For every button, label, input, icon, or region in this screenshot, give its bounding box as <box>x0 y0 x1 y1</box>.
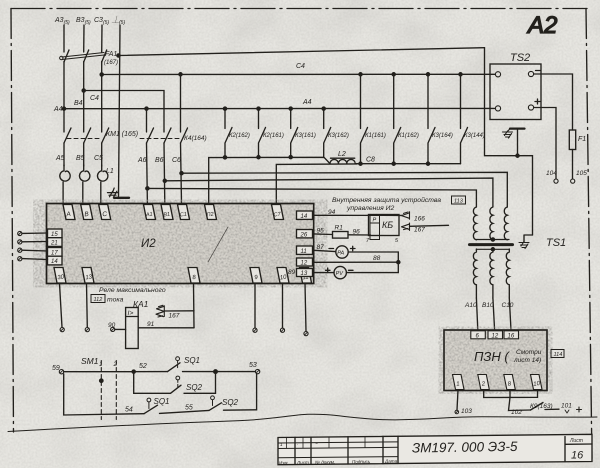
wire 89 label <box>288 269 296 276</box>
wire label A4 left <box>53 106 63 113</box>
TS1 secondary coil A <box>473 249 476 298</box>
wire phase B4 down to KM1 <box>83 62 85 133</box>
protection note text <box>332 196 441 212</box>
svg-text:А4: А4 <box>53 106 63 113</box>
contact K9(163) <box>531 403 560 411</box>
connector circle pin30 <box>60 328 64 332</box>
contactor K4 pole A <box>147 128 154 143</box>
transformer TS2 box <box>490 64 541 120</box>
fuse F1 <box>569 130 575 150</box>
switch SQ2 mid blade <box>171 385 182 393</box>
KB contact 166 arrow <box>402 212 410 219</box>
label C5 <box>94 155 103 162</box>
wire ground drop at TS2 <box>485 48 533 235</box>
chassis bar stem <box>517 129 519 156</box>
wire pin9 down <box>254 284 256 329</box>
svg-text:В6: В6 <box>155 157 164 164</box>
contactor K4 pole C <box>181 128 188 143</box>
wire label C10 <box>502 302 514 309</box>
svg-text:ТS1: ТS1 <box>546 237 566 249</box>
junction bus K3(164) <box>426 162 429 165</box>
wire A6 column from A4 bus <box>146 109 148 132</box>
svg-text:Дата: Дата <box>384 459 398 464</box>
SM1 bottom wire left <box>64 374 144 415</box>
junction A4 tap <box>62 107 65 110</box>
TS1 primary coil A <box>473 207 476 240</box>
contact K3(164) column <box>428 74 435 163</box>
TS1 secondary coil B <box>490 249 493 298</box>
svg-text:К4(164): К4(164) <box>184 135 207 142</box>
wire 88 label <box>373 255 381 262</box>
PZN label <box>474 349 542 364</box>
KA1 contact arrows <box>156 305 164 317</box>
connector circle pin10 <box>280 328 284 332</box>
svg-text:№ докум.: № докум. <box>315 460 335 465</box>
label K9(163) <box>530 403 553 410</box>
svg-text:Внутренняя защита устройства: Внутренняя защита устройства <box>332 196 441 204</box>
svg-text:112: 112 <box>94 297 103 303</box>
svg-text:14: 14 <box>301 214 308 220</box>
terminal 104 label <box>546 170 557 177</box>
wire left pin 14 <box>22 258 48 261</box>
junction bus K1(162) <box>392 162 395 165</box>
TS2 plus sign <box>535 99 540 104</box>
wire A4 bus to TS2 <box>64 107 495 109</box>
label A6 <box>137 157 147 164</box>
contact K2(162) column <box>225 109 232 158</box>
connector circle pin9 <box>253 328 257 332</box>
overcurrent note line1 <box>99 287 166 294</box>
wire A10 to PZN <box>476 298 477 330</box>
svg-text:16: 16 <box>508 334 515 340</box>
wire bracket to 102 <box>509 397 531 410</box>
wire 94 label <box>328 209 336 216</box>
KB coil P box <box>370 216 380 224</box>
junction bus K2(162) <box>223 156 226 159</box>
label 55 <box>185 405 193 412</box>
terminal 104 circle <box>554 179 558 183</box>
svg-text:(167): (167) <box>104 60 118 66</box>
PZN pin 12 <box>488 331 503 340</box>
SQ2 bottom label <box>222 398 239 407</box>
wire C6 column from C4 line <box>180 74 182 132</box>
plus sign PA <box>351 246 356 250</box>
frame right border <box>586 9 592 463</box>
wire left pin 17 <box>22 249 48 252</box>
PZN pin 1 <box>453 375 465 390</box>
svg-text:А6: А6 <box>137 157 147 164</box>
svg-text:В1: В1 <box>163 212 171 219</box>
wire A6 feed to TS1 <box>147 188 476 207</box>
title block row divider <box>278 442 398 458</box>
U2 pin A <box>63 205 75 220</box>
junction K3(164) top <box>426 73 429 76</box>
contactor K4 pole B <box>164 128 171 143</box>
wire B6 down to U2 pin B1 <box>163 143 166 204</box>
wire phase A4 down to KM1 <box>63 62 65 133</box>
svg-text:11: 11 <box>301 249 307 255</box>
wire label A10 <box>464 302 477 309</box>
label 54 <box>125 407 133 414</box>
circuit breaker FA1 pole A <box>64 50 69 62</box>
svg-text:89: 89 <box>288 269 296 276</box>
svg-text:А4: А4 <box>302 99 312 106</box>
wire 95 from pin26 <box>314 233 333 236</box>
svg-text:55: 55 <box>185 405 193 412</box>
relay KA1 label <box>133 299 149 309</box>
junction bus K2(161) <box>257 156 260 159</box>
junction K3(162) top <box>322 107 325 110</box>
wire B10 to PZN <box>493 298 495 330</box>
wire to connector 53 <box>216 371 256 373</box>
svg-text:167: 167 <box>414 227 425 234</box>
node C3(5) label <box>94 17 109 26</box>
KB contact tail <box>410 225 449 226</box>
svg-text:А10: А10 <box>464 302 477 309</box>
F1 label <box>578 136 586 143</box>
node ground(5) label <box>111 15 125 26</box>
svg-text:К2(162): К2(162) <box>229 133 250 139</box>
wire phase C4 down to KM1 <box>101 62 103 133</box>
contact K3(161) column <box>291 109 298 158</box>
SQ1 top label <box>184 356 200 365</box>
wire 90 to KA1 <box>115 328 126 330</box>
TS1 primary coil C <box>504 207 507 240</box>
svg-text:Лист: Лист <box>569 438 583 444</box>
svg-text:1: 1 <box>280 442 283 447</box>
wire C6 down to U2 pin C1 <box>181 143 182 204</box>
U2 bottom pin 13 <box>82 268 94 284</box>
revision wavy line <box>8 414 597 431</box>
svg-text:SQ1: SQ1 <box>184 356 200 365</box>
wire label B4 left <box>74 100 83 107</box>
switch SQ1 top actuator <box>176 357 180 361</box>
svg-text:~: ~ <box>315 441 318 446</box>
svg-text:101: 101 <box>561 403 572 410</box>
contact K2(161) column <box>259 109 266 158</box>
wire TS2 plus to terminal 104 <box>534 108 556 180</box>
wire ground from sheet5 down <box>119 25 121 197</box>
junction C4 tap <box>100 73 103 76</box>
svg-text:I>: I> <box>128 310 134 317</box>
svg-text:А5: А5 <box>55 155 65 162</box>
svg-text:лист 14): лист 14) <box>513 357 541 364</box>
current loop on B5 <box>79 165 89 204</box>
TS2 minus sign <box>536 70 541 72</box>
svg-text:В5: В5 <box>76 155 85 162</box>
TS2 terminal left top <box>495 72 500 77</box>
wire pin30 down <box>60 284 63 328</box>
svg-text:А1: А1 <box>145 212 153 219</box>
junction B6 feed <box>163 179 166 182</box>
label A5 <box>55 155 65 162</box>
U2 pin A1 <box>144 205 156 220</box>
label C6 <box>172 157 181 164</box>
ammeter PA <box>336 246 348 258</box>
wire B5 <box>83 143 85 166</box>
junction A6 on A4 <box>145 107 148 110</box>
U2 pin C1 <box>178 205 190 220</box>
junction C6 on C4 <box>179 73 182 76</box>
resistor R1 <box>333 232 349 239</box>
wire pin13 down <box>86 284 89 328</box>
svg-text:26: 26 <box>300 232 308 238</box>
svg-text:В10: В10 <box>482 302 494 309</box>
TS2 terminal left bottom <box>495 106 500 111</box>
svg-text:А: А <box>65 211 71 219</box>
svg-text:91: 91 <box>147 321 155 328</box>
wire 87 label <box>317 244 325 251</box>
wire PZN pin1 down <box>457 390 458 410</box>
svg-text:104: 104 <box>546 170 557 177</box>
svg-text:95: 95 <box>317 228 325 235</box>
wire 94 from pin14 <box>314 214 402 216</box>
svg-text:тока: тока <box>107 297 124 304</box>
U2 pin C7 <box>272 205 284 220</box>
svg-text:SМ1: SМ1 <box>81 356 99 366</box>
wire C7 bypass <box>276 164 357 204</box>
wire phase B3 down to FA1 <box>83 25 85 52</box>
svg-text:12: 12 <box>492 334 499 340</box>
switch SQ2 bottom actuator <box>211 396 215 400</box>
title sheet box <box>565 437 592 462</box>
svg-text:К9(163): К9(163) <box>530 403 553 410</box>
junction below core <box>491 248 494 251</box>
svg-text:П2: П2 <box>206 212 214 219</box>
svg-text:С6: С6 <box>172 157 181 164</box>
L2 label <box>338 151 346 158</box>
svg-text:88: 88 <box>373 255 381 262</box>
ground symbol at L1 <box>108 188 130 198</box>
current loop on A5 <box>60 165 70 204</box>
svg-text:105: 105 <box>576 170 587 177</box>
TS1 primary coil B <box>490 207 493 240</box>
frame top border <box>11 8 587 10</box>
svg-text:2: 2 <box>113 361 118 368</box>
junction ground bus <box>117 54 120 57</box>
svg-text:FA1: FA1 <box>105 51 117 58</box>
SQ1 bottom label <box>154 397 170 406</box>
wire 91 from KA1 <box>138 327 194 329</box>
svg-text:16: 16 <box>571 450 584 462</box>
FA1 linkage end circle <box>60 56 63 59</box>
U2 pin B <box>81 205 93 220</box>
PZN pin 2 <box>478 375 490 390</box>
svg-text:К1(161): К1(161) <box>365 133 386 139</box>
junction 52 <box>132 370 135 373</box>
KB label <box>382 220 393 230</box>
svg-text:F1: F1 <box>578 136 586 143</box>
label 52 <box>139 363 147 370</box>
svg-text:52: 52 <box>139 363 147 370</box>
svg-text:SQ2: SQ2 <box>186 383 203 392</box>
wire left pin 21 <box>22 241 48 243</box>
U2 right pin 26 <box>297 230 313 239</box>
svg-text:SQ2: SQ2 <box>222 398 239 407</box>
inductor L2 core bar <box>331 157 355 159</box>
connector circle 59 <box>59 370 63 374</box>
wire label B10 <box>482 302 494 309</box>
wire pin10 down <box>282 284 284 329</box>
wire left pin 15 <box>22 232 48 234</box>
connector circle pin11 <box>304 332 308 336</box>
wire pin8 down <box>193 284 196 328</box>
junction K3(144) top <box>459 73 462 76</box>
sheet number 16 <box>571 450 584 462</box>
svg-text:РА: РА <box>337 250 344 256</box>
svg-text:L2: L2 <box>338 151 346 158</box>
wire A5 <box>63 143 65 166</box>
svg-text:L1: L1 <box>106 168 114 175</box>
bus C8 after L2 <box>355 163 460 165</box>
switch SQ2 mid actuator <box>176 376 180 380</box>
contactor KM1 pole B <box>84 128 91 143</box>
connector circle 17 <box>18 248 22 252</box>
chassis bar under TS2 <box>510 128 525 130</box>
PZN block body <box>444 330 547 391</box>
circuit breaker FA1 pole C <box>102 50 107 62</box>
relay KA1 box <box>126 308 139 349</box>
PZN pin 6 <box>471 331 486 340</box>
svg-text:167: 167 <box>169 313 180 320</box>
overcurrent note line2 <box>107 297 124 304</box>
SM1 dashed link 1 <box>100 361 102 420</box>
wire 89 from pin13 <box>314 272 334 274</box>
KB contact 167 arrow <box>402 223 410 230</box>
label 167 <box>414 227 425 234</box>
control unit U2 body <box>47 204 314 284</box>
svg-text:С1: С1 <box>180 212 188 219</box>
connector circle 90 <box>111 327 115 331</box>
ground symbol under TS2 <box>503 129 513 138</box>
TS1 core bars <box>470 243 513 246</box>
wire PA to bracket <box>348 252 398 262</box>
wire 96 to KB coil <box>348 234 371 236</box>
terminal 105 circle <box>571 179 575 183</box>
svg-text:С8: С8 <box>366 157 375 164</box>
U2 right pin 13 <box>297 269 313 278</box>
wire C10 to PZN <box>509 298 511 330</box>
junction K2(162) top <box>223 107 226 110</box>
connector circle 14 <box>18 257 22 261</box>
svg-text:59: 59 <box>52 365 60 372</box>
connector 103 <box>455 410 459 414</box>
connector circle 53 <box>255 369 259 373</box>
junction bracket <box>397 261 400 264</box>
wire B4 branch to K4 column <box>84 91 164 133</box>
sheet word <box>569 438 583 444</box>
U2 right pin 12 <box>297 258 313 267</box>
svg-text:С4: С4 <box>296 63 305 70</box>
K4 linkage dashes <box>140 138 181 140</box>
junction chassis stem <box>516 154 519 157</box>
junction A6 feed <box>146 187 149 190</box>
svg-text:12: 12 <box>301 261 308 267</box>
label 53 <box>249 362 257 369</box>
junction B4 tap <box>82 89 85 92</box>
U2 interior scratch <box>208 227 228 262</box>
FA1 label <box>104 51 118 66</box>
wire B6 feed to TS1 <box>165 178 493 207</box>
K1(162) label <box>398 133 419 139</box>
plus sign 101 <box>577 407 582 412</box>
svg-text:А2: А2 <box>526 12 557 39</box>
transformer TS2 label <box>510 52 530 64</box>
wire A6 down to U2 pin A1 <box>146 143 149 204</box>
svg-text:С4: С4 <box>90 95 99 102</box>
node B3(5) label <box>76 17 91 26</box>
wire label A4 mid <box>302 99 312 106</box>
U2 left pin 14 <box>48 256 63 265</box>
wire 87 from pin11 <box>314 250 336 251</box>
KB pin 7 label <box>366 238 370 244</box>
U2 left pin 17 <box>48 248 63 257</box>
svg-text:КМ1 (165): КМ1 (165) <box>106 131 138 138</box>
SQ2 mid label <box>186 383 203 392</box>
svg-text:103: 103 <box>461 408 472 415</box>
label 59 <box>52 365 60 372</box>
KM1 linkage dashes <box>67 138 102 140</box>
SM1 top wire <box>64 371 168 373</box>
svg-text:К3(162): К3(162) <box>328 133 349 139</box>
svg-text:К1(162): К1(162) <box>398 133 419 139</box>
wire 95 label <box>317 228 325 235</box>
label 102 <box>511 409 522 416</box>
svg-text:94: 94 <box>328 209 336 216</box>
junction above core <box>491 238 494 241</box>
svg-text:И2: И2 <box>141 238 156 250</box>
K2(161) label <box>263 133 284 139</box>
PZN pin 10 <box>531 375 543 390</box>
svg-text:К3(161): К3(161) <box>295 133 316 139</box>
TS2 terminal minus <box>528 71 533 76</box>
switch SQ1 bottom blade <box>144 405 209 414</box>
SM1 link dot <box>100 379 103 382</box>
svg-text:К3(164): К3(164) <box>432 133 453 139</box>
svg-text:14: 14 <box>51 259 58 265</box>
U2 bottom pin 8 <box>188 268 200 284</box>
junction bus K1(161) <box>359 162 362 165</box>
svg-text:Лист: Лист <box>296 460 309 465</box>
K3(161) label <box>295 133 316 139</box>
junction K1(161) top <box>359 73 362 76</box>
svg-text:КБ: КБ <box>382 220 393 230</box>
svg-text:SQ1: SQ1 <box>154 397 170 406</box>
svg-text:96: 96 <box>353 229 361 236</box>
contactor KM1 pole A <box>64 128 71 143</box>
label 103 <box>461 408 472 415</box>
wire TS2 minus to F1 <box>534 74 573 130</box>
svg-text:ТS2: ТS2 <box>510 52 530 64</box>
svg-text:54: 54 <box>125 407 133 414</box>
PZN bracket 2-8-10 <box>484 390 538 398</box>
contact K1(162) column <box>394 74 401 163</box>
svg-text:В4: В4 <box>74 100 83 107</box>
label 1 <box>99 361 103 368</box>
TS1 label <box>546 237 566 249</box>
wire 90 label <box>108 322 116 329</box>
svg-text:Изм: Изм <box>279 460 288 465</box>
svg-text:управления И2: управления И2 <box>346 205 395 212</box>
TS1 core ground link <box>524 235 533 242</box>
wire phase C3 down to FA1 <box>101 25 103 52</box>
ref box 112 <box>91 295 105 303</box>
plus sign PV <box>326 268 331 272</box>
KA1 contact label 167 <box>169 313 180 320</box>
label 166 <box>414 216 425 223</box>
title block small table verticals <box>295 436 398 464</box>
svg-text:166: 166 <box>414 216 425 223</box>
